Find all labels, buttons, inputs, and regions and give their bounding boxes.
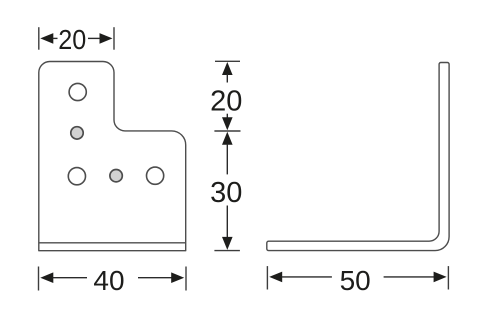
dim right mid tick <box>214 130 240 132</box>
dim top-20 right extension tick <box>113 27 115 50</box>
dim right bottom tick <box>214 250 240 252</box>
bracket front view outline <box>39 62 186 251</box>
bracket front view flange edge line <box>39 242 186 244</box>
svg-text:50: 50 <box>340 265 371 296</box>
dim bottom-40 right arrow <box>171 272 184 283</box>
dim top-20 left tail <box>53 37 58 39</box>
dim bottom-50 left line <box>281 276 332 278</box>
dim bottom-50 left extension tick <box>266 266 268 289</box>
dim bottom-50 left arrow <box>269 272 282 283</box>
hole row left white <box>68 168 85 185</box>
dim bottom-40 right extension tick <box>185 267 187 291</box>
dim bottom-50 right extension tick <box>447 266 449 289</box>
dim bottom-40 left line <box>53 277 88 279</box>
dim bottom-40 left arrow <box>40 272 53 283</box>
hole gray upper <box>71 127 83 139</box>
hole row right white <box>147 167 164 184</box>
hole top white <box>69 83 86 100</box>
dim top-20 left arrow <box>40 33 53 44</box>
hole row middle gray <box>110 170 122 182</box>
dim right-20 down arrow <box>222 117 233 130</box>
dim right-20 upper line <box>226 74 228 83</box>
dim right-20 up arrow <box>222 62 233 75</box>
dim bottom-40 left extension tick <box>38 267 40 291</box>
dim right-30 lower line <box>226 206 228 238</box>
svg-text:20: 20 <box>210 85 242 117</box>
dim right-20 lower line <box>226 114 228 120</box>
bracket side view L profile <box>267 63 449 251</box>
dim bottom-40 right line <box>138 277 172 279</box>
dim top-20 left extension tick <box>38 27 40 50</box>
dim right-30 up arrow <box>222 132 233 145</box>
dim top-20 right arrow <box>100 33 113 44</box>
dim right-20 top tick <box>215 60 240 62</box>
svg-text:30: 30 <box>210 177 242 209</box>
dim right-30 down arrow <box>222 237 233 250</box>
dim top-20 right tail <box>88 37 100 39</box>
dim bottom-50 right arrow <box>434 272 447 283</box>
svg-text:40: 40 <box>93 265 124 296</box>
dim bottom-50 right line <box>384 276 435 278</box>
dim right-30 upper line <box>226 144 228 175</box>
svg-text:20: 20 <box>58 24 86 55</box>
